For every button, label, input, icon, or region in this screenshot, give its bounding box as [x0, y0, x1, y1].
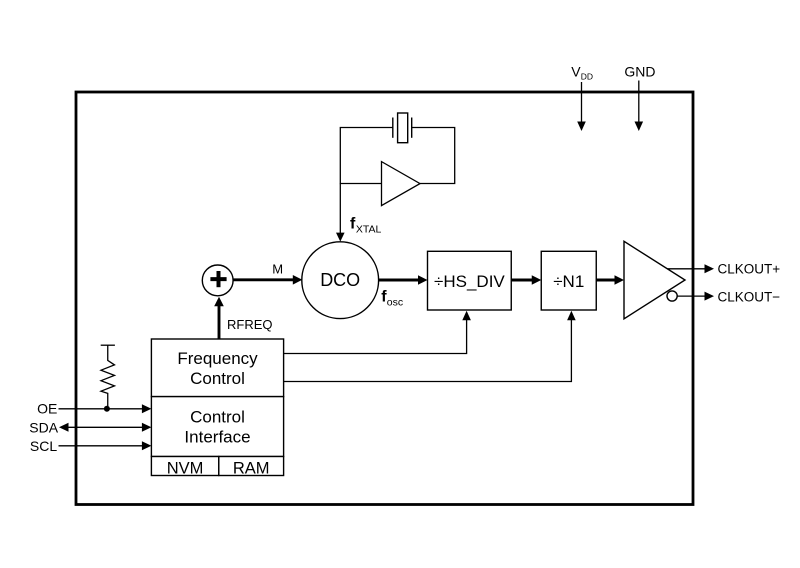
wire crystal loop [340, 128, 454, 184]
GND pin arrow [635, 81, 644, 132]
node RFREQ label [227, 317, 273, 332]
wire fosc arrow DCO to HS_DIV [379, 275, 428, 285]
node fXTAL label [350, 216, 382, 236]
svg-text:V: V [571, 64, 581, 80]
wire M arrow to DCO [233, 275, 302, 285]
wire RFREQ arrow [214, 297, 224, 339]
VDD pin arrow [577, 82, 586, 131]
node OE label [37, 400, 57, 416]
block Frequency Control [151, 339, 283, 397]
output buffer [624, 241, 685, 318]
block Control Interface [151, 397, 283, 457]
wire HS_DIV to N1 [511, 275, 541, 285]
oscillator amplifier [382, 162, 421, 206]
svg-text:SDA: SDA [29, 419, 58, 435]
wire fXTAL to DCO [336, 184, 345, 242]
svg-text:÷HS_DIV: ÷HS_DIV [434, 272, 505, 291]
DCO U1 [302, 242, 379, 319]
node M label [272, 261, 283, 276]
svg-text:DCO: DCO [320, 270, 360, 290]
svg-text:CLKOUT+: CLKOUT+ [718, 262, 781, 277]
svg-text:÷N1: ÷N1 [553, 272, 584, 291]
wire N1 to output buffer [596, 275, 624, 285]
svg-text:Control: Control [190, 369, 245, 388]
svg-text:M: M [272, 261, 283, 276]
svg-text:DD: DD [581, 71, 593, 81]
node SCL label [30, 438, 57, 454]
summing node [202, 265, 233, 296]
svg-text:Control: Control [190, 408, 245, 427]
node CLKOUT- label [718, 289, 781, 304]
wire CLKOUT- [677, 292, 714, 301]
crystal Y1 [393, 113, 412, 143]
chip boundary [76, 92, 693, 505]
divider HS_DIV [428, 251, 512, 310]
node fosc label [381, 289, 403, 309]
wire feedback to N1 [284, 311, 576, 382]
svg-text:Frequency: Frequency [177, 349, 258, 368]
divider N1 [541, 251, 596, 310]
junction dot OE [104, 406, 110, 412]
resistor R1 [101, 345, 115, 409]
inversion bubble [667, 291, 677, 301]
svg-text:OE: OE [37, 400, 57, 416]
node CLKOUT+ label [718, 262, 781, 277]
wire feedback to HS_DIV [284, 311, 471, 354]
wire SDA bidirectional [59, 423, 151, 432]
block NVM [151, 457, 218, 478]
VDD label [571, 64, 593, 82]
wire OE input [59, 404, 152, 413]
svg-text:CLKOUT−: CLKOUT− [718, 289, 781, 304]
wire SCL input [59, 441, 152, 450]
svg-text:Interface: Interface [184, 427, 250, 446]
node SDA label [29, 419, 58, 435]
svg-text:osc: osc [387, 297, 403, 309]
GND label [624, 64, 655, 80]
svg-text:NVM: NVM [167, 459, 204, 477]
svg-text:RAM: RAM [233, 459, 270, 477]
svg-text:GND: GND [624, 64, 655, 80]
svg-text:RFREQ: RFREQ [227, 317, 273, 332]
wire CLKOUT+ [667, 264, 714, 273]
block RAM [219, 457, 284, 478]
svg-text:XTAL: XTAL [356, 224, 382, 236]
svg-text:SCL: SCL [30, 438, 57, 454]
